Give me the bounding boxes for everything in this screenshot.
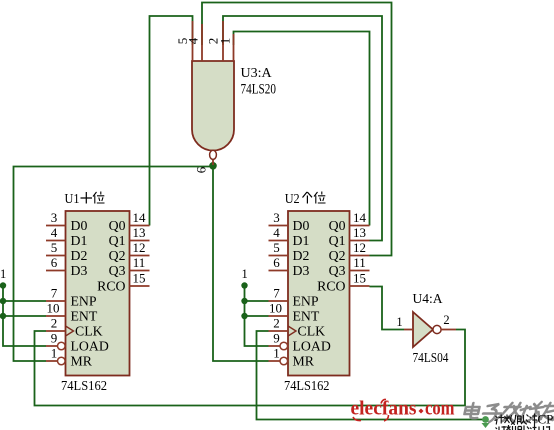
svg-text:CP: CP: [538, 412, 554, 427]
svg-text:RCO: RCO: [97, 279, 125, 294]
svg-text:U4:A: U4:A: [413, 291, 443, 306]
svg-text:CLK: CLK: [75, 324, 103, 339]
svg-text:U2: U2: [285, 192, 300, 207]
svg-text:11: 11: [353, 255, 366, 270]
node: U2 ENT junction: [241, 313, 247, 319]
wire: U3 output stub: [212, 159, 214, 166]
node: CP input terminal arrow: [482, 416, 490, 428]
svg-text:2: 2: [443, 313, 449, 327]
svg-text:4: 4: [51, 225, 58, 240]
svg-text:13: 13: [353, 225, 366, 240]
IC U2 74LS162 body: [288, 211, 350, 376]
svg-text:com: com: [425, 398, 455, 420]
svg-text:LOAD: LOAD: [293, 339, 331, 354]
node: U1 ENT junction: [0, 313, 6, 319]
wire: NAND pin5 to U1 Q0: [150, 16, 193, 226]
svg-text:2: 2: [51, 316, 58, 331]
glyph chong2 partial: [530, 425, 550, 430]
svg-text:MR: MR: [71, 354, 93, 369]
wire: NAND output to U2 MR: [213, 167, 269, 362]
glyph shu2 partial: [507, 425, 516, 430]
svg-text:3: 3: [51, 210, 58, 225]
svg-text:5: 5: [51, 240, 58, 255]
node: logic 1 terminal U2: [241, 282, 247, 288]
svg-text:Q1: Q1: [329, 233, 346, 248]
node: NAND output junction: [209, 162, 217, 170]
op-amp U3 NAND gate 74LS20 body: [192, 61, 234, 151]
svg-text:4: 4: [186, 37, 201, 44]
glyph ge (unit): [303, 192, 313, 204]
wire: U3 pin stubs: [193, 21, 234, 61]
svg-text:14: 14: [133, 210, 147, 225]
node: U4 output bubble: [433, 325, 441, 333]
transistor U4 inverter 74LS04 body: [413, 312, 433, 347]
U2 CLK edge symbol: [288, 326, 296, 336]
svg-text:9: 9: [51, 331, 58, 346]
svg-text:Q2: Q2: [329, 248, 346, 263]
svg-text:Q3: Q3: [329, 263, 346, 278]
svg-text:D1: D1: [71, 233, 88, 248]
svg-text:U1: U1: [65, 192, 80, 207]
svg-text:10: 10: [47, 301, 60, 316]
elecfans.com watermark: [351, 398, 455, 422]
svg-text:1: 1: [273, 346, 280, 361]
node: U3 output bubble: [210, 150, 217, 159]
wire: NAND pin4 to U2 Q2: [202, 3, 392, 256]
glyph dian: [464, 403, 481, 418]
node: U2 LOAD bubble: [280, 342, 288, 350]
svg-text:ENP: ENP: [71, 294, 97, 309]
svg-text:ENP: ENP: [293, 294, 319, 309]
glyph wei (position): [93, 192, 105, 204]
wire: U4 output to U1 CLK: [35, 330, 466, 406]
glyph ji: [495, 415, 505, 425]
svg-text:74LS20: 74LS20: [241, 82, 277, 98]
svg-text:6: 6: [273, 255, 280, 270]
svg-text:7: 7: [51, 286, 58, 301]
dianzi fashaoyou gray watermark: [463, 402, 554, 422]
glyph zi: [481, 404, 503, 422]
label CP pulse text row1: [495, 414, 538, 426]
glyph shi (ten): [81, 192, 93, 204]
svg-text:CLK: CLK: [298, 324, 326, 339]
glyph shao: [518, 402, 544, 422]
svg-text:74LS162: 74LS162: [284, 379, 330, 394]
svg-text:7: 7: [273, 286, 280, 301]
glyph shu: [504, 415, 516, 425]
node: U1 ENP junction: [0, 298, 6, 304]
node: U2 ENP junction: [241, 298, 247, 304]
glyph wei (position): [314, 192, 326, 204]
svg-text:14: 14: [353, 210, 367, 225]
glyph you: [536, 403, 554, 422]
svg-text:6: 6: [194, 166, 209, 173]
svg-text:RCO: RCO: [317, 279, 345, 294]
svg-text:ENT: ENT: [293, 309, 320, 324]
wire: NAND pin1 to U2 Q0: [234, 32, 370, 226]
svg-text:15: 15: [353, 271, 366, 286]
svg-text:Q1: Q1: [109, 233, 126, 248]
svg-text:D2: D2: [71, 248, 88, 263]
wire: U4 input stub: [404, 329, 413, 331]
U2 inside pin labels: [293, 218, 346, 369]
svg-text:Q0: Q0: [329, 218, 346, 233]
svg-text:U3:A: U3:A: [241, 66, 273, 81]
svg-text:D0: D0: [71, 218, 88, 233]
wire: logic 1 to U1 ENP ENT LOAD: [3, 286, 46, 347]
node: U2 MR bubble: [280, 357, 288, 365]
node: logic 1 terminal U1: [0, 282, 6, 288]
svg-text:2: 2: [273, 316, 280, 331]
svg-text:D3: D3: [71, 263, 88, 278]
svg-text:74LS162: 74LS162: [61, 379, 107, 394]
IC U1 74LS162 body: [66, 211, 130, 376]
svg-text:6: 6: [51, 255, 58, 270]
U1 CLK edge symbol: [66, 326, 74, 336]
node: U1 LOAD bubble: [58, 342, 66, 350]
svg-text:11: 11: [133, 255, 146, 270]
glyph mai2 partial: [518, 426, 529, 430]
svg-text:D1: D1: [293, 233, 310, 248]
label U1 title: [65, 192, 105, 208]
label U2 title: [285, 192, 326, 208]
wire: U1 left pin stubs: [46, 226, 66, 362]
wire: NAND pin2 to U2 Q1: [223, 16, 382, 241]
svg-text:13: 13: [133, 225, 146, 240]
svg-text:Q2: Q2: [109, 248, 126, 263]
label CP pulse text row2 partial: [496, 425, 551, 430]
wire: U2 left pin stubs: [269, 226, 289, 362]
U1 pin numbers: [47, 210, 147, 361]
wire: U2 right pin stubs: [350, 226, 370, 287]
glyph mai: [518, 415, 529, 425]
wire: NAND output to U1 MR: [14, 167, 214, 362]
glyph chong: [529, 414, 537, 426]
U1 inside pin labels: [71, 218, 126, 369]
svg-text:12: 12: [133, 240, 146, 255]
svg-text:1: 1: [242, 267, 248, 281]
svg-text:D3: D3: [293, 263, 310, 278]
glyph fa: [495, 403, 522, 422]
svg-text:1: 1: [396, 315, 402, 329]
svg-text:ENT: ENT: [71, 309, 98, 324]
svg-text:15: 15: [133, 271, 146, 286]
svg-text:D0: D0: [293, 218, 310, 233]
node: U1 MR bubble: [58, 357, 66, 365]
svg-text:LOAD: LOAD: [71, 339, 109, 354]
svg-text:10: 10: [269, 301, 282, 316]
svg-text:1: 1: [51, 346, 58, 361]
svg-text:74LS04: 74LS04: [413, 350, 449, 365]
svg-text:12: 12: [353, 240, 366, 255]
svg-text:MR: MR: [293, 354, 315, 369]
U2 pin numbers: [269, 210, 367, 361]
svg-text:D2: D2: [293, 248, 310, 263]
svg-text:3: 3: [273, 210, 280, 225]
svg-text:Q3: Q3: [109, 263, 126, 278]
svg-text:9: 9: [273, 331, 280, 346]
wire: U1 right pin stubs: [130, 226, 150, 287]
wire: U4 output stub: [441, 329, 456, 331]
svg-text:Q0: Q0: [109, 218, 126, 233]
svg-text:5: 5: [273, 240, 280, 255]
wire: U2 CLK to CP terminal: [257, 331, 486, 420]
wire: logic 1 to U2 ENP ENT LOAD: [245, 286, 269, 347]
svg-text:4: 4: [273, 225, 280, 240]
glyph ji2 partial: [496, 426, 507, 430]
wire: U2 RCO to U4 input: [370, 287, 405, 330]
svg-text:1: 1: [0, 267, 6, 281]
svg-text:1: 1: [218, 38, 233, 45]
